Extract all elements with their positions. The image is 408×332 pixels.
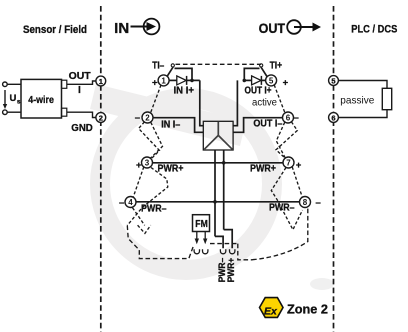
svg-text:3: 3: [145, 159, 150, 168]
svg-text:TI+: TI+: [270, 60, 283, 71]
svg-text:+: +: [296, 160, 302, 171]
svg-text:5: 5: [269, 76, 274, 85]
svg-text:+: +: [152, 78, 158, 89]
svg-text:4-wire: 4-wire: [28, 94, 54, 106]
svg-text:Sensor / Field: Sensor / Field: [23, 24, 87, 36]
svg-text:5: 5: [331, 76, 335, 85]
svg-text:PWR+: PWR+: [250, 164, 276, 175]
svg-text:1: 1: [99, 77, 103, 86]
svg-text:–: –: [294, 113, 299, 124]
svg-text:OUT: OUT: [259, 20, 286, 36]
svg-text:PLC / DCS: PLC / DCS: [351, 24, 397, 36]
svg-text:passive: passive: [340, 95, 374, 107]
svg-text:active: active: [252, 98, 277, 109]
svg-text:2: 2: [145, 114, 150, 123]
svg-text:IN I–: IN I–: [161, 120, 180, 131]
svg-text:+: +: [136, 160, 142, 171]
svg-text:4: 4: [128, 198, 133, 207]
svg-text:s: s: [17, 99, 21, 106]
svg-text:GND: GND: [71, 122, 93, 134]
svg-text:1: 1: [161, 76, 166, 85]
svg-text:–: –: [316, 197, 321, 208]
svg-text:OUT I–: OUT I–: [253, 118, 282, 129]
svg-text:Zone 2: Zone 2: [287, 303, 328, 317]
svg-text:6: 6: [286, 114, 291, 123]
svg-text:8: 8: [303, 198, 308, 207]
svg-text:OUT: OUT: [69, 70, 92, 82]
svg-text:IN: IN: [114, 21, 129, 37]
svg-text:TI–: TI–: [152, 60, 164, 71]
svg-text:IN I+: IN I+: [174, 85, 195, 96]
svg-text:OUT I+: OUT I+: [245, 86, 272, 97]
svg-text:FM: FM: [195, 218, 208, 230]
svg-text:–: –: [135, 113, 140, 124]
svg-text:+: +: [283, 78, 289, 89]
svg-text:PWR–: PWR–: [141, 203, 167, 214]
svg-text:PWR+: PWR+: [158, 164, 184, 175]
svg-text:6: 6: [331, 113, 335, 122]
svg-text:PWR–: PWR–: [269, 203, 295, 214]
svg-text:7: 7: [286, 159, 291, 168]
svg-text:–: –: [119, 197, 124, 208]
svg-text:2: 2: [99, 113, 103, 122]
svg-text:PWR+: PWR+: [226, 258, 236, 283]
svg-text:I: I: [78, 85, 81, 96]
svg-text:Ex: Ex: [264, 306, 278, 318]
svg-text:U: U: [10, 93, 17, 104]
